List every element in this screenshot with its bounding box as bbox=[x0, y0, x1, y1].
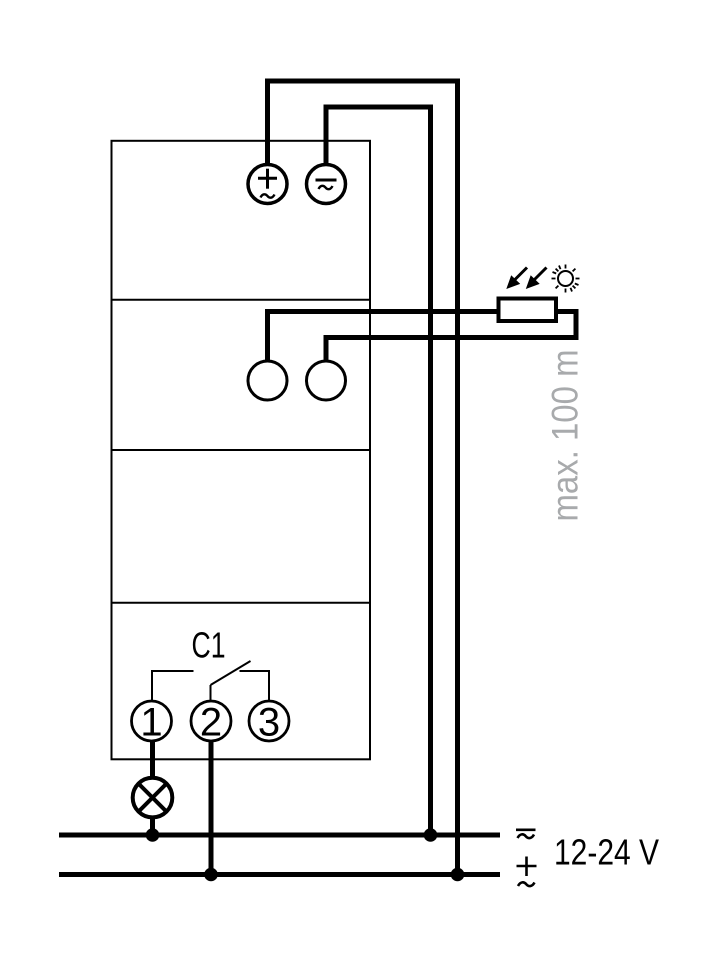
svg-text:1: 1 bbox=[140, 701, 162, 745]
svg-text:C1: C1 bbox=[192, 625, 226, 666]
svg-text:12-24 V: 12-24 V bbox=[554, 832, 660, 873]
svg-text:2: 2 bbox=[200, 701, 222, 745]
svg-text:max. 100 m: max. 100 m bbox=[545, 350, 586, 522]
svg-text:3: 3 bbox=[258, 701, 280, 745]
